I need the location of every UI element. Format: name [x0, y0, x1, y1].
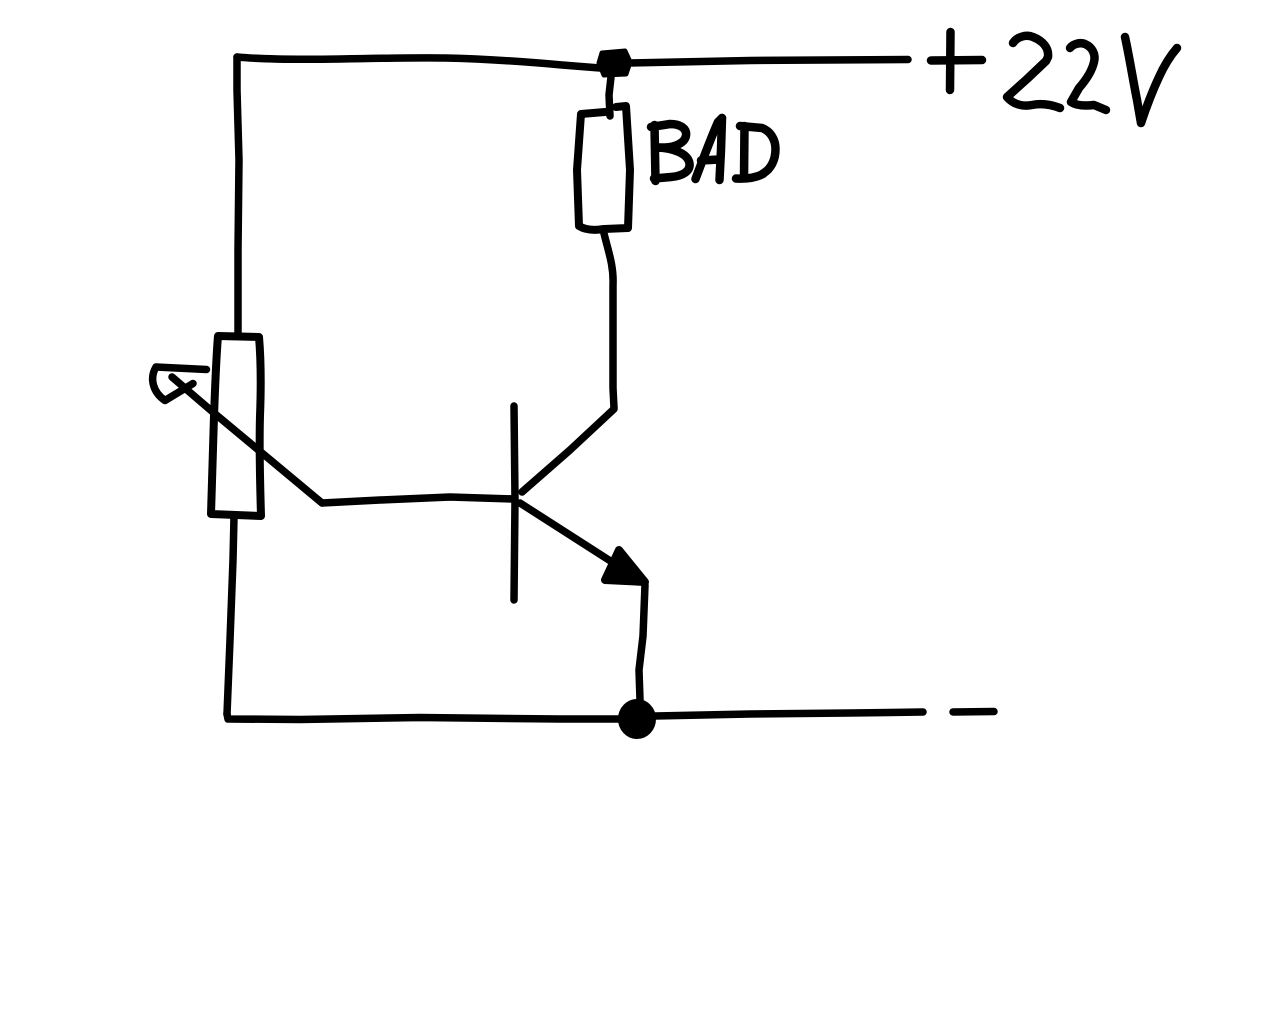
wire: base wire from wiper to transistor base — [322, 497, 514, 503]
potentiometer body — [211, 336, 261, 516]
wire: left vertical from top-left corner down to potentiometer top — [237, 57, 239, 333]
wire: bottom rail right segment — [655, 712, 923, 716]
transistor Q1: collector stroke — [522, 409, 614, 492]
wire: stub from junction down to resistor — [609, 77, 611, 116]
potentiometer wiper shaft — [172, 377, 322, 503]
node: +22V junction dot — [599, 51, 630, 75]
transistor Q1: emitter arrowhead — [605, 550, 645, 582]
label BAD — [651, 118, 776, 181]
wire: from potentiometer bottom down to bottom-left corner — [227, 517, 234, 714]
wire: bottom rail left segment — [227, 714, 622, 720]
transistor Q1: emitter stroke — [520, 503, 612, 562]
node: bottom junction dot — [620, 701, 655, 738]
wire: top rail left segment from top-left corner to +22V junction — [237, 57, 600, 68]
potentiometer wiper arrowhead (open) — [153, 367, 207, 401]
transistor Q1: base bar — [514, 406, 515, 600]
wire: detached dash at right end of bottom rail — [953, 708, 994, 716]
wire: emitter down to bottom junction — [639, 585, 645, 700]
wire: from resistor bottom down to transistor collector — [603, 229, 614, 408]
wire: top rail right segment from junction to +22V label — [628, 60, 908, 64]
resistor BAD (body) — [577, 106, 630, 230]
power label +22V — [931, 32, 1177, 123]
